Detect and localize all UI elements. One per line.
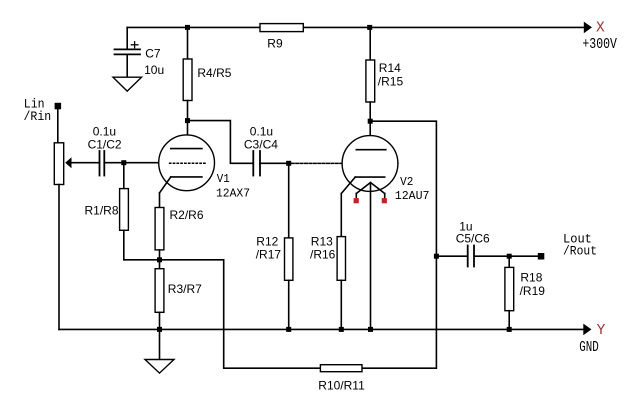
junction ground rail / R18 (507, 327, 512, 332)
svg-text:R18: R18 (520, 270, 542, 284)
heater pin right (382, 198, 387, 203)
label Lin /Rin (24, 97, 52, 124)
label V2 12AU7 (395, 175, 430, 203)
tube V1 (159, 135, 215, 193)
resistor R4/R5 (183, 27, 192, 148)
junction output / R18 (507, 254, 512, 259)
svg-text:GND: GND (579, 340, 599, 356)
wire top supply rail (127, 26, 585, 28)
svg-text:C7: C7 (145, 46, 161, 60)
label 0.1u C1/C2 (88, 124, 122, 151)
wire wiper to C1/C2 (72, 162, 99, 164)
ground arrow Y (583, 324, 591, 336)
resistor R1/R8 (120, 163, 129, 260)
capacitor C5/C6 (436, 246, 541, 267)
svg-text:V1: V1 (217, 172, 230, 186)
label C7 10u (144, 46, 164, 77)
resistor R10/R11 (320, 365, 362, 372)
junction top rail / R14 (367, 25, 372, 30)
wire V2 anode to output column (370, 121, 436, 256)
node Lin terminal (55, 103, 62, 110)
junction ground rail / R3 (157, 327, 162, 332)
svg-text:/R19: /R19 (520, 284, 546, 298)
junction ground rail / R12 (286, 327, 291, 332)
junction ground rail / R13 (339, 327, 344, 332)
junction anode V1 (185, 118, 190, 123)
svg-text:10u: 10u (144, 63, 164, 77)
resistor R9 (260, 24, 303, 32)
svg-text:/R16: /R16 (310, 247, 336, 261)
wire feedback tap to R10/R11 (160, 260, 321, 368)
svg-text:/R15: /R15 (378, 75, 404, 89)
wire heater center tap (370, 183, 372, 330)
wire R1 bottom to cathode junction (124, 259, 160, 261)
label 1u C5/C6 (456, 220, 490, 246)
heater pin left (354, 198, 359, 203)
svg-text:C1/C2: C1/C2 (88, 138, 122, 152)
junction ground rail / heater tap (368, 327, 373, 332)
label V1 12AX7 (216, 172, 250, 200)
svg-text:X: X (596, 21, 605, 37)
label 0.1u C3/C4 (244, 125, 278, 152)
label R18 /R19 (520, 270, 546, 298)
wire ground stub (159, 329, 161, 359)
svg-text:/Rin: /Rin (24, 109, 52, 124)
svg-text:0.1u: 0.1u (93, 124, 116, 138)
label R12 /R17 (256, 235, 282, 262)
label R13 /R16 (310, 235, 336, 262)
junction top rail / R4 (185, 25, 190, 30)
svg-text:R3/R7: R3/R7 (168, 282, 202, 296)
svg-text:R4/R5: R4/R5 (197, 66, 231, 80)
capacitor C3/C4 (253, 151, 260, 176)
svg-text:/R17: /R17 (256, 247, 282, 261)
resistor R14/R15 (366, 27, 375, 149)
wire V1 anode to C3/C4 (188, 121, 253, 164)
junction cathode bias node (157, 257, 162, 262)
wire potentiometer bottom to ground rail (58, 185, 60, 330)
capacitor C1/C2 (100, 151, 105, 176)
potentiometer body (54, 143, 63, 185)
svg-text:R10/R11: R10/R11 (318, 379, 365, 393)
wire C3/C4 to grid junction (260, 162, 289, 164)
label Lout /Rout (563, 232, 597, 259)
wire output column to R10/R11 (362, 256, 436, 368)
svg-text:R14: R14 (379, 61, 401, 75)
junction grid V1 / R1 (121, 160, 126, 165)
tube V2 (341, 136, 398, 198)
capacitor C7 (115, 27, 141, 77)
resistor R18/R19 (505, 256, 514, 329)
junction grid V2 / R12 (286, 161, 291, 166)
power arrow X (584, 22, 592, 34)
svg-text:V2: V2 (400, 175, 413, 189)
resistor R3/R7 (155, 260, 164, 330)
wire grid V2 dotted (292, 162, 398, 164)
resistor R2/R6 (155, 193, 164, 260)
label R14 /R15 (378, 61, 404, 88)
ground symbol (145, 360, 174, 374)
svg-text:/Rout: /Rout (563, 244, 597, 259)
wire bottom ground rail (59, 328, 585, 330)
potentiometer wiper arrow (65, 157, 71, 168)
svg-text:C5/C6: C5/C6 (456, 232, 490, 246)
svg-text:12AU7: 12AU7 (395, 189, 430, 203)
wire Lin to potentiometer (57, 106, 59, 143)
junction anode V2 (368, 119, 373, 124)
junction C5 tap (434, 254, 439, 259)
svg-text:R2/R6: R2/R6 (170, 208, 204, 222)
output terminal (538, 253, 545, 260)
svg-text:12AX7: 12AX7 (216, 186, 250, 200)
resistor R12/R17 (285, 163, 293, 329)
svg-text:+300V: +300V (582, 37, 617, 53)
svg-text:C3/C4: C3/C4 (244, 138, 278, 152)
ground symbol (C7) (113, 77, 142, 91)
svg-text:R9: R9 (267, 37, 283, 51)
wire C1/C2 to V1 grid (104, 162, 167, 164)
svg-text:Y: Y (597, 323, 606, 339)
resistor R13/R16 (337, 194, 345, 330)
svg-text:R1/R8: R1/R8 (85, 204, 119, 218)
